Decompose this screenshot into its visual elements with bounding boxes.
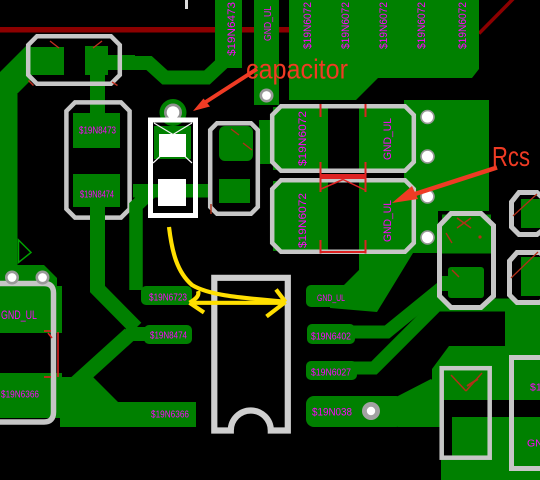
svg-text:GND_UL: GND_UL	[262, 6, 274, 41]
node label box $19N8474	[144, 325, 192, 344]
via block 2	[420, 149, 435, 164]
svg-text:$19N8473: $19N8473	[79, 125, 116, 137]
ratsnest red marks R1	[29, 41, 118, 86]
node label box $19N038 with via	[306, 396, 404, 427]
svg-text:$19N6072: $19N6072	[297, 111, 309, 166]
svg-text:$19N6072: $19N6072	[378, 2, 390, 49]
via block 3	[420, 189, 435, 204]
via U2 right	[36, 271, 50, 285]
svg-text:$19N6366: $19N6366	[1, 389, 39, 401]
component Rcs1 outline	[272, 106, 414, 171]
pad Rcs1.1	[273, 107, 328, 170]
svg-text:capacitor: capacitor	[246, 54, 348, 85]
pad Q3 top interior green	[442, 215, 491, 254]
svg-text:$19N6366: $19N6366	[151, 409, 189, 421]
ratsnest red X on Q3	[446, 218, 471, 277]
svg-text:GND_UL: GND_UL	[382, 118, 394, 160]
component capacitor white outline	[151, 120, 196, 216]
component U1 outline bottom-center	[214, 278, 287, 431]
svg-text:$19N6402: $19N6402	[311, 331, 351, 343]
red tick on pour corner	[467, 379, 478, 386]
ratsnest red V on C6	[451, 375, 466, 391]
wire dark-red horizontal trace top-left	[0, 27, 292, 33]
node GND pour top	[289, 0, 479, 100]
annotation arrow capacitor	[201, 69, 257, 105]
wire trace $19N6027 to right	[352, 305, 540, 368]
svg-text:GND_UL: GND_UL	[317, 293, 345, 304]
wire dark-red diagonal top-right	[479, 0, 514, 34]
pad Rcs1.2	[359, 107, 413, 170]
pad C2.1	[73, 113, 120, 148]
wire diagonal down-left to band	[66, 334, 130, 392]
ratsnest Q5	[511, 252, 538, 278]
annotation yellow curve from capacitor	[169, 227, 283, 302]
component Q4 octagon top-right	[512, 193, 540, 235]
svg-text:$19N6072: $19N6072	[416, 2, 428, 49]
svg-text:$19N6072: $19N6072	[302, 2, 314, 49]
svg-text:$19N8474: $19N8474	[80, 189, 114, 201]
wire stub to $19N8474 box	[126, 327, 152, 341]
svg-text:GND_UL: GND_UL	[382, 200, 394, 242]
component Rcs2 outline	[272, 180, 414, 252]
pad R1.1 left	[30, 47, 64, 75]
wire trace $19N6402 to Q3 pad	[352, 284, 446, 332]
pad U2 $19N6366	[0, 373, 62, 418]
node label box $19N6402	[307, 324, 355, 344]
ratsnest white X on capacitor	[153, 123, 192, 163]
red measurement rectangle on Rcs	[321, 104, 366, 254]
component Q3 octagon	[440, 214, 494, 308]
svg-text:$19N6: $19N6	[530, 382, 540, 394]
pad Q3 bottom	[448, 267, 484, 298]
via block 1	[420, 110, 435, 125]
component U2 outline bottom-left	[0, 284, 54, 423]
via on GND_UL strip	[260, 89, 274, 103]
wire trace B to $19N6723 label	[136, 190, 153, 290]
wire trace A from C2.2 down to $19N8474 label	[98, 203, 137, 328]
node label box GND_UL	[306, 285, 348, 307]
svg-text:GND_U: GND_U	[527, 438, 540, 450]
svg-text:Rcs: Rcs	[492, 141, 530, 172]
pad Rcs2.2	[359, 181, 413, 251]
ratsnest red on C5	[211, 129, 252, 214]
ratsnest Q4	[513, 194, 537, 216]
pad R1.2 right	[85, 46, 108, 75]
component C7 outline bottom-right	[512, 358, 540, 469]
component C2 outline	[66, 102, 129, 217]
pad capacitor via top green disc	[160, 99, 187, 126]
pad C5 bottom	[219, 179, 250, 203]
component Q5 octagon right	[510, 253, 540, 303]
pad capacitor 1 white highlight	[159, 134, 186, 157]
red bracket marks between U2 pads	[44, 331, 58, 377]
node label box $19N6027	[306, 361, 357, 380]
wire diagonal band strip to pad R1.1	[0, 46, 31, 112]
wire $19N6473 strip	[215, 0, 242, 68]
pad Q5	[521, 257, 540, 296]
component R1 outline top-left	[28, 36, 120, 84]
white tick top edge	[185, 0, 188, 9]
wire right-edge column below Q5	[505, 303, 540, 353]
via U2 left	[5, 271, 19, 285]
pad capacitor 2 white highlight	[158, 179, 186, 206]
wire stub right of R1.2	[106, 55, 135, 67]
wire U-shaped trace to $19N6473	[104, 56, 230, 78]
pad C2.2	[73, 174, 120, 207]
pad Rcs2.1	[273, 181, 328, 251]
annotation arrow Rcs	[415, 168, 497, 195]
wire stub down from C2.2	[90, 205, 105, 245]
node GND pour bottom-right	[432, 346, 540, 480]
pad C5 top	[219, 126, 253, 161]
node slab below resistors	[330, 253, 413, 312]
svg-text:$19N8474: $19N8474	[150, 330, 187, 342]
black keepout band bottom-right	[444, 400, 540, 417]
pad Rcs1.1 left extension	[259, 120, 273, 164]
component C5 octagon right of capacitor	[210, 123, 258, 214]
wire capacitor bottom trace	[133, 184, 223, 198]
via on $19N038 label	[362, 402, 380, 420]
wire left vertical strip	[0, 94, 18, 266]
via capacitor	[164, 104, 182, 122]
node label box $19N6723	[141, 286, 192, 305]
svg-text:$19N6072: $19N6072	[297, 193, 309, 248]
wire stub down from R1.2 to C2.1	[90, 73, 105, 115]
component C6 outline bottom	[442, 368, 490, 458]
svg-text:$19N6072: $19N6072	[340, 2, 352, 49]
svg-text:$19N6027: $19N6027	[311, 367, 351, 379]
pad Q4	[521, 199, 540, 228]
wire GND_UL strip top	[254, 0, 279, 105]
svg-text:GND_UL: GND_UL	[1, 308, 37, 322]
svg-text:$19N038: $19N038	[312, 407, 352, 419]
via block 4	[420, 230, 435, 245]
annotation yellow double arrow	[190, 301, 285, 305]
svg-text:$19N6072: $19N6072	[457, 2, 469, 49]
svg-text:$19N6723: $19N6723	[149, 292, 187, 304]
node triangle marker on left strip	[19, 240, 32, 263]
pad capacitor 1 green under	[154, 126, 191, 159]
pad U2 GND_UL	[0, 265, 57, 286]
node GND block with vias right	[404, 100, 489, 211]
svg-text:$19N6473: $19N6473	[226, 2, 238, 56]
node green band bottom-left	[60, 377, 196, 427]
